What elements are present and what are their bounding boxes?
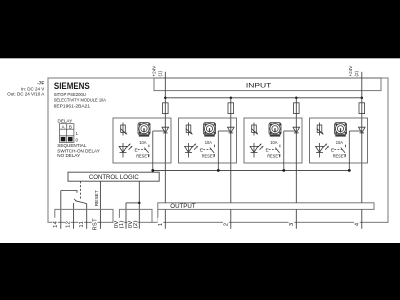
svg-text:RESET: RESET (333, 153, 346, 158)
svg-text:SITOP PSE200U: SITOP PSE200U (54, 92, 86, 97)
svg-text:4: 4 (355, 222, 361, 226)
svg-text:NO DELAY: NO DELAY (57, 153, 80, 158)
svg-text:2: 2 (224, 223, 230, 227)
svg-text:E: E (266, 147, 269, 153)
svg-text:DELAY: DELAY (58, 119, 73, 124)
svg-text:CONTROL LOGIC: CONTROL LOGIC (89, 174, 139, 181)
svg-text:B: B (69, 124, 72, 129)
svg-text:RST: RST (92, 218, 98, 231)
svg-text:RESET: RESET (94, 190, 100, 206)
svg-text:10A: 10A (139, 140, 146, 145)
svg-text:+24V: +24V (348, 65, 353, 77)
svg-text:10A: 10A (270, 140, 277, 145)
svg-text:(1): (1) (157, 70, 162, 76)
svg-text:6EP1961-2BA21: 6EP1961-2BA21 (54, 103, 91, 108)
svg-text:(2): (2) (133, 220, 139, 228)
svg-text:RESET: RESET (202, 153, 215, 158)
svg-text:In: DC 24 V: In: DC 24 V (21, 86, 44, 91)
svg-text:E: E (135, 147, 138, 153)
svg-text:10A: 10A (336, 140, 343, 145)
svg-text:1: 1 (158, 223, 164, 227)
svg-text:Out: DC 24 V/10 A: Out: DC 24 V/10 A (7, 92, 44, 97)
svg-text:3: 3 (289, 223, 295, 227)
svg-text:SEQUENTIAL: SEQUENTIAL (57, 143, 87, 148)
svg-text:E: E (331, 147, 334, 153)
svg-text:INPUT: INPUT (246, 82, 272, 89)
svg-text:OUTPUT: OUTPUT (170, 203, 196, 210)
svg-text:12: 12 (66, 221, 72, 228)
svg-text:SELECTIVITY MODULE 10A: SELECTIVITY MODULE 10A (54, 97, 107, 102)
svg-text:E: E (200, 147, 203, 153)
svg-text:SIEMENS: SIEMENS (54, 81, 90, 91)
svg-text:RESET: RESET (267, 153, 280, 158)
svg-text:14: 14 (53, 220, 59, 228)
svg-text:+24V: +24V (152, 65, 157, 77)
svg-text:(2): (2) (354, 70, 359, 76)
svg-text:A: A (62, 124, 65, 129)
svg-text:11: 11 (79, 221, 85, 228)
svg-text:RESET: RESET (136, 153, 149, 158)
svg-text:10A: 10A (205, 140, 212, 145)
svg-text:(1): (1) (119, 220, 125, 228)
